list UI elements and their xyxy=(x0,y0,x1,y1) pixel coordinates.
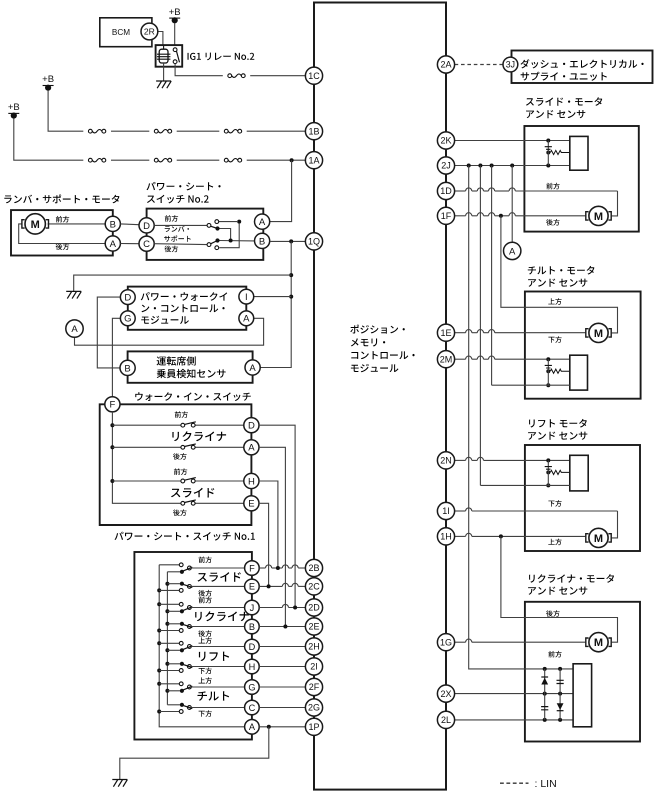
label サポート switch2 xyxy=(164,235,191,241)
+B feed to 1A xyxy=(8,112,19,114)
recliner motor M xyxy=(589,633,608,652)
pin 2L xyxy=(437,711,454,728)
wire switch1 B to module 2E xyxy=(259,626,305,628)
connector on 1A wire c xyxy=(224,158,228,162)
svg-text:A: A xyxy=(243,314,250,325)
lift sensor xyxy=(546,458,550,462)
svg-text:2K: 2K xyxy=(440,136,451,146)
wire 2R to relay coil xyxy=(158,32,163,47)
switch contact row A xyxy=(181,445,185,449)
connector on 1B wire b xyxy=(154,129,158,133)
switch1 bus2 xyxy=(166,572,168,705)
label 後方 sw1 B xyxy=(198,630,212,637)
pin C switch2 xyxy=(139,236,154,251)
svg-text:2D: 2D xyxy=(308,603,320,613)
svg-text:2M: 2M xyxy=(440,354,453,364)
ground below relay xyxy=(156,81,171,88)
wire lift sensor bottom to 2J feed xyxy=(480,484,569,486)
svg-text:2X: 2X xyxy=(440,689,451,699)
svg-text:+B: +B xyxy=(8,102,20,113)
connector A right xyxy=(504,242,521,259)
pin C switch1 xyxy=(245,700,260,715)
wire relay coil to ground xyxy=(163,63,165,81)
wire 1H to lift motor 上方 xyxy=(455,535,466,537)
wire 1G to recliner motor 前方 xyxy=(455,641,466,643)
wire D to upper pole xyxy=(154,224,207,226)
pin 2R on BCM xyxy=(141,23,158,40)
label リクライナ sw1 xyxy=(195,611,249,621)
pin D switch1 xyxy=(245,639,260,654)
label 前方 sw1 J xyxy=(199,597,212,604)
pin D walk-in xyxy=(120,290,135,305)
pin A occupant xyxy=(245,360,260,375)
pin 1B xyxy=(305,123,322,140)
svg-text:D: D xyxy=(143,221,150,232)
switch1 bus1 xyxy=(159,565,244,727)
upper contact to A wire xyxy=(219,221,237,223)
tilt sensor xyxy=(546,357,550,361)
label 後方 walk-in 2 xyxy=(173,509,187,516)
svg-text:F: F xyxy=(109,400,115,411)
wire 1F junction down to connector A xyxy=(511,166,513,243)
tilt motor sensor box xyxy=(525,292,641,399)
pin 1C xyxy=(305,67,322,84)
wire walk-in switch row A xyxy=(112,446,182,448)
pin H switch1 xyxy=(245,659,260,674)
wire 1Q junction down to occupant sensor A xyxy=(260,241,291,367)
walk-in switch bus from F xyxy=(112,412,182,503)
wire 2K to slide sensor xyxy=(455,140,570,142)
svg-text:2R: 2R xyxy=(144,27,155,37)
pin 2K xyxy=(437,132,454,149)
pin 1P xyxy=(305,718,322,735)
svg-text:2L: 2L xyxy=(441,715,451,725)
pin 2M xyxy=(437,351,454,368)
label 前方 slide xyxy=(546,183,559,190)
svg-text:2E: 2E xyxy=(308,622,319,632)
svg-text:D: D xyxy=(249,642,256,652)
recliner sensor branch nodes xyxy=(543,667,547,671)
switch1 row J switch xyxy=(159,603,181,605)
svg-text:A: A xyxy=(249,363,256,374)
svg-text:1Q: 1Q xyxy=(308,237,320,247)
wire walk-in A down to 2E row xyxy=(259,447,285,626)
wire 2J to slide sensor xyxy=(455,165,570,167)
capacitor left branch xyxy=(541,707,548,710)
switch1 row E switch xyxy=(159,589,181,591)
wire C to lower pole xyxy=(154,243,207,246)
pin G walk-in xyxy=(120,311,135,326)
label リクライナ walk-in xyxy=(172,431,226,441)
label チルト sw1 xyxy=(198,691,230,700)
node on 1A wire xyxy=(290,158,294,162)
lumbar support motor label xyxy=(4,194,119,203)
+B feed to IG1 relay xyxy=(169,17,180,19)
wire switch1 J to module 2D xyxy=(259,607,282,609)
pin 2X xyxy=(437,685,454,702)
ground wire to walk-in module xyxy=(74,275,292,291)
wire motor to pin A 後方 xyxy=(19,224,105,244)
pin 1A xyxy=(305,152,322,169)
svg-text:J: J xyxy=(250,603,255,613)
wire walk-in E down to 2C row xyxy=(259,503,269,586)
pin 1Q xyxy=(305,233,322,250)
wire relay contact to 1C xyxy=(175,64,223,76)
svg-text:F: F xyxy=(249,563,255,573)
pin 1I xyxy=(437,502,454,519)
wire +B to 1B xyxy=(48,90,83,131)
svg-text:C: C xyxy=(249,703,256,713)
switch1 row D switch xyxy=(159,642,181,644)
svg-text:D: D xyxy=(124,293,131,304)
pin B lumbar xyxy=(105,216,120,231)
recliner motor sensor box xyxy=(525,602,640,742)
label スライド sw1 xyxy=(198,572,241,582)
svg-text:I: I xyxy=(245,292,248,303)
occupant detection sensor box xyxy=(128,351,253,382)
pin A switch1 xyxy=(245,720,260,735)
power seat switch No.2 label xyxy=(147,182,221,191)
svg-text:2G: 2G xyxy=(308,703,320,713)
switch1 row H switch xyxy=(159,670,181,672)
svg-text:G: G xyxy=(124,314,131,325)
wire 2N to lift sensor xyxy=(455,459,466,461)
relay label IG1 リレー No.2 xyxy=(188,53,255,61)
switch1 row B switch xyxy=(159,630,181,632)
pin 2F xyxy=(305,678,322,695)
lower throw to cross-up xyxy=(219,224,239,248)
recliner sensor block xyxy=(573,664,592,727)
label 下方 sw1 C xyxy=(199,710,212,717)
wire motor to pin B 前方 xyxy=(48,223,105,225)
label 下方 tilt xyxy=(548,336,561,343)
label 後方 recliner xyxy=(546,610,560,617)
svg-text:1P: 1P xyxy=(308,722,319,732)
pin H walk-in switch xyxy=(244,473,259,488)
label 後方 slide xyxy=(546,219,560,226)
switch2 upper switch xyxy=(207,224,211,228)
IG1 relay No.2 box xyxy=(156,45,183,67)
label 上方 tilt xyxy=(548,298,561,305)
pin J switch1 xyxy=(245,600,260,615)
pin 2C xyxy=(305,578,322,595)
power walk-in control module box xyxy=(128,287,247,330)
vertical 2J feed to tilt sensor xyxy=(491,166,493,386)
wire walk-in switch row E right xyxy=(194,502,245,504)
connector on 1A wire b xyxy=(154,158,158,162)
label リフト sw1 xyxy=(199,652,229,661)
label スライド walk-in xyxy=(171,488,214,498)
wire switch1 D to module 2H xyxy=(259,646,305,648)
wire 1I to lift motor 下方 xyxy=(455,510,466,512)
pin A switch2 xyxy=(255,214,270,229)
switch1 row C switch xyxy=(159,711,181,713)
pin 1H xyxy=(437,528,454,545)
pin F walk-in switch xyxy=(105,397,120,412)
lumbar motor M xyxy=(25,214,45,234)
wire lumbar B to switch D xyxy=(120,223,139,226)
lift motor sensor label xyxy=(529,419,587,428)
position memory control module box xyxy=(314,3,446,790)
lift motor M xyxy=(589,528,608,547)
wire 1H junction to recliner motor 後方 xyxy=(501,536,618,642)
svg-text:A: A xyxy=(249,722,256,732)
connector A left xyxy=(66,320,83,337)
lift sensor block xyxy=(570,455,588,491)
pin A walk-in switch xyxy=(244,440,259,455)
switch contact row H xyxy=(181,479,185,483)
pin 1G xyxy=(437,634,454,651)
diode up left branch xyxy=(541,678,548,685)
wire 1F to slide motor 後方 xyxy=(455,215,466,217)
label 上方 sw1 G xyxy=(199,677,212,684)
wire switch1 F to module 2B xyxy=(259,567,265,569)
pin 2H xyxy=(305,638,322,655)
svg-text:1E: 1E xyxy=(440,328,451,338)
node switch2 B-row xyxy=(229,239,233,243)
wire walk-in I to junction xyxy=(254,296,291,298)
svg-text:2N: 2N xyxy=(440,456,452,466)
upper throw to cross-down xyxy=(219,229,230,239)
pin 2A xyxy=(437,56,454,73)
pin E walk-in switch xyxy=(244,496,259,511)
wire 1A to seat switch No.2 pin A xyxy=(270,160,292,221)
wire 1E to tilt motor 下方 xyxy=(455,332,466,334)
label 上方 lift xyxy=(548,539,561,546)
BCM box xyxy=(100,18,152,47)
LIN wire 2A to 3J xyxy=(455,64,503,66)
pin B switch2 xyxy=(255,233,270,248)
capacitor right branch xyxy=(557,680,564,683)
vertical 2J feed to recliner sensor xyxy=(469,166,573,669)
svg-text:M: M xyxy=(31,219,40,231)
wire 2M to tilt sensor xyxy=(455,358,466,360)
wire walk-in H down to 2B row xyxy=(259,481,278,568)
svg-text:+B: +B xyxy=(42,74,54,85)
wire walk-in switch row H xyxy=(112,480,182,482)
svg-text:: LIN: : LIN xyxy=(535,778,557,790)
pin I walk-in xyxy=(239,289,254,304)
svg-text:2J: 2J xyxy=(441,161,451,171)
svg-text:B: B xyxy=(110,219,116,230)
label 後方 walk-in 1 xyxy=(173,453,187,460)
module label ポジション・メモリ・コントロール・モジュール xyxy=(350,325,405,334)
label 前方 switch2 xyxy=(165,215,178,222)
pin 1D xyxy=(437,182,454,199)
node on 1Q wire xyxy=(289,239,293,243)
svg-text:1B: 1B xyxy=(308,126,319,136)
label 下方 lift xyxy=(548,500,561,507)
pin 2B xyxy=(305,559,322,576)
label 前方 lumbar xyxy=(56,216,69,223)
svg-text:1I: 1I xyxy=(442,506,450,516)
svg-text:2A: 2A xyxy=(440,60,451,70)
slide sensor xyxy=(546,139,550,143)
pin 2J xyxy=(437,157,454,174)
svg-text:D: D xyxy=(248,421,255,432)
pin A walk-in xyxy=(239,311,254,326)
+B feed to 1B xyxy=(43,85,54,87)
vertical 2J feed to lift sensor xyxy=(479,166,481,486)
dash unit label xyxy=(521,59,644,68)
wire 2X to recliner sensor xyxy=(455,693,573,695)
svg-text:2C: 2C xyxy=(308,582,320,592)
svg-text:H: H xyxy=(248,476,255,487)
occupant sensor label xyxy=(157,356,196,365)
svg-text:H: H xyxy=(249,662,256,672)
tilt motor sensor label xyxy=(528,266,595,275)
walk-in module label xyxy=(141,292,228,301)
walk-in switch label xyxy=(135,392,251,401)
pin 2E xyxy=(305,618,322,635)
diode down right branch xyxy=(557,703,564,710)
svg-text:2B: 2B xyxy=(308,563,319,573)
svg-text:E: E xyxy=(248,499,254,510)
slide motor sensor label xyxy=(526,97,602,106)
wire +B to relay contact xyxy=(174,23,176,46)
walk-in switch box xyxy=(100,404,252,525)
svg-text:M: M xyxy=(594,637,603,649)
pin F switch1 xyxy=(245,561,260,576)
label 上方 sw1 D xyxy=(199,637,212,644)
pin B occupant xyxy=(120,360,135,375)
svg-text:M: M xyxy=(594,211,603,223)
connector on 1B wire c xyxy=(224,129,228,133)
switch1 row G switch xyxy=(159,683,181,685)
svg-text:A: A xyxy=(110,239,117,250)
power seat switch No.2 box xyxy=(147,209,264,260)
svg-text:1D: 1D xyxy=(440,186,452,196)
pin 1E xyxy=(437,324,454,341)
slide motor M xyxy=(589,206,608,225)
wire 2L to recliner sensor xyxy=(455,719,573,721)
pin G switch1 xyxy=(245,680,260,695)
pin A lumbar xyxy=(105,236,120,251)
connector on 1A wire a xyxy=(88,158,92,162)
ground bottom left xyxy=(112,780,127,787)
svg-text:3J: 3J xyxy=(506,60,515,70)
node switch2 A-row xyxy=(237,220,241,224)
wire walk-in G down to walk-in switch F xyxy=(112,318,120,397)
svg-text:A: A xyxy=(259,217,266,228)
wire switch1 H to module 2I xyxy=(259,666,305,668)
relay contact xyxy=(173,48,177,52)
wire walk-in A to connector A xyxy=(75,318,264,345)
svg-text:2I: 2I xyxy=(310,662,318,672)
label 後方 sw1 E xyxy=(198,590,212,597)
svg-text:2H: 2H xyxy=(308,642,320,652)
wire switch1 G to module 2F xyxy=(259,686,305,688)
wire walk-in D to occupant B xyxy=(97,297,120,368)
tilt motor M xyxy=(589,323,608,342)
slide sensor block xyxy=(570,136,588,170)
pin D switch2 xyxy=(139,218,154,233)
wire lumbar A to switch C xyxy=(120,243,139,245)
switch contact row E xyxy=(181,501,185,505)
wire B row xyxy=(220,240,255,242)
label 後方 lumbar xyxy=(56,243,70,250)
svg-text:M: M xyxy=(594,533,603,545)
pin E switch1 xyxy=(245,579,260,594)
wire switch1 E to module 2C xyxy=(259,585,282,587)
pin 1F xyxy=(437,207,454,224)
wire switch1 C to module 2G xyxy=(259,707,305,709)
connector on 1B wire a xyxy=(88,129,92,133)
wire switch2 B to 1Q xyxy=(270,240,306,242)
ground walk-in xyxy=(66,291,81,298)
svg-text:1F: 1F xyxy=(441,211,452,221)
svg-text:B: B xyxy=(249,622,255,632)
wire to tilt motor 上方 xyxy=(501,299,618,333)
svg-text:BCM: BCM xyxy=(112,28,130,37)
label 前方 sw1 F xyxy=(199,557,212,564)
svg-text:A: A xyxy=(248,443,255,454)
wire switch ground xyxy=(120,727,269,780)
connector on 1C wire xyxy=(228,74,232,78)
pin 2I xyxy=(305,658,322,675)
svg-text:E: E xyxy=(249,582,255,592)
label ランバ・ switch2 xyxy=(165,226,189,232)
pin D walk-in switch xyxy=(244,418,259,433)
label 下方 sw1 H xyxy=(199,668,212,675)
svg-text:A: A xyxy=(509,246,516,257)
slide motor sensor box xyxy=(524,126,638,232)
svg-text:1G: 1G xyxy=(440,637,452,647)
wire switch1 A to module 1P xyxy=(259,726,305,728)
power seat switch No.1 box xyxy=(134,552,252,740)
node ground tap xyxy=(289,273,293,277)
svg-text:2F: 2F xyxy=(309,682,320,692)
label 前方 recliner xyxy=(548,651,561,658)
pin 2N xyxy=(437,452,454,469)
svg-text:B: B xyxy=(259,236,265,247)
pin B switch1 xyxy=(245,619,260,634)
dash electrical supply unit box xyxy=(512,51,653,84)
power seat switch No.1 label xyxy=(115,532,255,541)
wire walk-in switch row D xyxy=(112,424,182,426)
wire 1D to slide motor 前方 xyxy=(455,190,466,192)
svg-text:M: M xyxy=(594,328,603,340)
lumbar support motor box xyxy=(11,210,113,255)
wire +B to 1A xyxy=(14,118,84,160)
label 前方 walk-in 2 xyxy=(174,468,187,475)
svg-text:1H: 1H xyxy=(440,532,452,542)
wire tilt sensor bottom to 2J feed xyxy=(492,384,570,386)
pin 3J xyxy=(503,57,518,72)
svg-text:1A: 1A xyxy=(308,155,319,165)
svg-text:1C: 1C xyxy=(308,71,320,81)
label 前方 walk-in 1 xyxy=(175,411,188,418)
lift motor sensor box xyxy=(525,445,640,551)
label 後方 switch2 xyxy=(165,246,179,253)
tilt sensor block xyxy=(570,355,588,390)
svg-text:+B: +B xyxy=(169,7,181,18)
svg-text:G: G xyxy=(248,682,255,692)
LIN legend xyxy=(500,782,529,784)
pin 2D xyxy=(305,599,322,616)
relay coil xyxy=(159,49,168,63)
pin 2G xyxy=(305,699,322,716)
recliner motor sensor label xyxy=(529,574,614,583)
switch1 row F switch xyxy=(159,564,181,566)
switch contact row D xyxy=(181,423,185,427)
node walk-in I tap xyxy=(289,295,293,299)
svg-text:C: C xyxy=(143,239,150,250)
wire walk-in D down to 2D row xyxy=(259,425,295,607)
svg-text:A: A xyxy=(71,324,78,335)
svg-text:B: B xyxy=(124,363,130,374)
switch2 lower switch xyxy=(207,243,211,247)
